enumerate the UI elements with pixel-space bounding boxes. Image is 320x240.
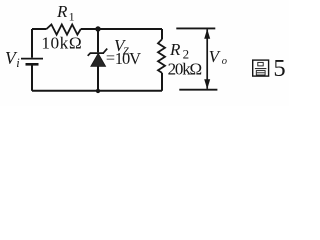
- battery V_i short plate (-): [26, 63, 39, 66]
- battery V_i long plate (+): [21, 58, 43, 60]
- svg-text:10V: 10V: [115, 49, 141, 68]
- svg-text:20kΩ: 20kΩ: [168, 60, 202, 79]
- svg-text:1: 1: [69, 10, 75, 24]
- zener diode VZ cathode right tick: [103, 49, 107, 54]
- resistor R1: [47, 25, 81, 35]
- wire: left rail battery to bottom: [31, 64, 33, 91]
- zener diode VZ triangle (anode, pointing up): [91, 53, 106, 66]
- node A junction dot (top of zener): [95, 26, 100, 31]
- wire: right branch bottom: [161, 73, 163, 91]
- resistor R2 (vertical zigzag): [158, 39, 165, 73]
- Vo measurement bottom bar: [179, 89, 217, 91]
- svg-text:R: R: [169, 40, 181, 59]
- Vo arrowhead down: [204, 79, 210, 89]
- wire: zener branch top: [97, 29, 99, 52]
- wire: top rail from source to R1: [32, 28, 47, 30]
- zener diode VZ cathode bar: [88, 53, 104, 56]
- svg-text:5: 5: [273, 55, 285, 82]
- wire: right branch top: [161, 29, 163, 39]
- node B junction dot (bottom of zener): [96, 89, 100, 93]
- wire: left rail down to battery: [31, 29, 33, 58]
- svg-text:i: i: [16, 56, 20, 70]
- wire: top rail R1 to right corner: [81, 28, 162, 30]
- Vo measurement top bar: [176, 27, 215, 29]
- caption character 圖 (figure) drawn as strokes: [253, 60, 269, 76]
- svg-text:R: R: [56, 2, 68, 21]
- svg-text:=: =: [106, 48, 115, 67]
- svg-text:10kΩ: 10kΩ: [41, 33, 82, 52]
- svg-text:o: o: [222, 56, 227, 67]
- Vo arrow line: [206, 29, 208, 89]
- wire: zener branch bottom: [97, 66, 99, 90]
- wire: bottom rail: [32, 90, 162, 92]
- Vo arrowhead up: [204, 29, 210, 39]
